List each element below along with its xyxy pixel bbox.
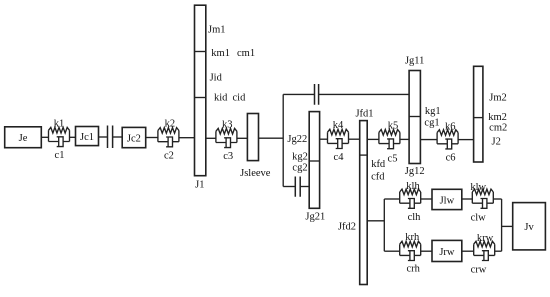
wire (400, 138, 409, 140)
wire (99, 136, 108, 138)
spring k5 (379, 130, 400, 136)
svg-text:Jg12: Jg12 (405, 166, 425, 177)
svg-text:c6: c6 (446, 152, 456, 163)
svg-text:Je: Je (19, 133, 28, 144)
wire (502, 225, 513, 227)
damper c3 (216, 138, 237, 148)
wire (458, 139, 474, 141)
wire (300, 186, 309, 188)
wire (495, 250, 502, 252)
wire (462, 198, 473, 200)
svg-text:c2: c2 (164, 150, 174, 161)
svg-text:crw: crw (471, 265, 487, 276)
right wheel-branch vertical (501, 199, 503, 251)
wire (259, 137, 284, 139)
damper c1 (49, 137, 70, 147)
wire (319, 93, 410, 95)
svg-text:Jg21: Jg21 (305, 212, 325, 223)
svg-text:Jg22: Jg22 (287, 134, 307, 145)
svg-text:c5: c5 (388, 153, 398, 164)
inertia bar Jsleeve (247, 114, 258, 161)
wire (237, 137, 248, 139)
spring-damper end plates k5/c5 (379, 132, 400, 143)
inertia bar Jm2/J2 (474, 66, 483, 162)
svg-text:km1: km1 (211, 48, 230, 59)
spring-damper end plates k2/c2 (158, 131, 179, 142)
svg-text:Jrw: Jrw (439, 247, 455, 258)
svg-text:clh: clh (408, 212, 422, 223)
inertia box Jc1 (76, 127, 99, 146)
spring k4 (328, 129, 349, 135)
wire (283, 93, 314, 95)
wire (384, 198, 399, 200)
svg-text:Jlw: Jlw (440, 195, 455, 206)
branch node vertical (282, 94, 284, 186)
damper clh (400, 199, 421, 209)
wire (283, 186, 295, 188)
svg-text:krh: krh (405, 232, 420, 243)
svg-text:kg1: kg1 (425, 106, 441, 117)
svg-text:c1: c1 (55, 150, 65, 161)
spring krh (400, 241, 421, 247)
gear mesh kg1 cg1 mesh (315, 84, 319, 105)
svg-text:Jfd2: Jfd2 (338, 221, 356, 232)
spring k3 (216, 128, 237, 134)
spring k6 (437, 130, 458, 136)
wire (349, 138, 360, 140)
svg-text:k5: k5 (388, 120, 399, 131)
wire (320, 138, 328, 140)
inertia bar Jg11/Jg12 (409, 71, 420, 164)
inertia box Jc2 (122, 127, 146, 147)
svg-text:c4: c4 (334, 152, 345, 163)
damper c2 (158, 137, 179, 147)
svg-text:crh: crh (406, 264, 420, 275)
svg-text:Jc1: Jc1 (80, 132, 94, 143)
wire (146, 137, 158, 139)
wire (206, 137, 216, 139)
svg-text:cfd: cfd (371, 172, 385, 183)
svg-text:cg2: cg2 (292, 163, 307, 174)
spring k1 (49, 127, 70, 133)
svg-text:k3: k3 (222, 119, 233, 130)
svg-text:k4: k4 (333, 120, 344, 131)
svg-text:k1: k1 (54, 118, 65, 129)
svg-text:Jv: Jv (524, 222, 534, 233)
wire (70, 136, 76, 138)
wire (493, 198, 501, 200)
spring-damper end plates krh/crh (400, 244, 421, 255)
svg-text:krw: krw (477, 233, 494, 244)
inertia bar Jg22/Jg21 (309, 112, 319, 209)
wire (367, 220, 384, 222)
spring-damper end plates krw/crw (474, 244, 495, 255)
svg-text:kfd: kfd (371, 159, 386, 170)
spring krw (474, 241, 495, 247)
inertia box Je (5, 127, 42, 148)
wire (367, 138, 379, 140)
spring-damper end plates klh/clh (400, 192, 421, 203)
svg-text:J2: J2 (492, 136, 501, 147)
inertia box Jlw (432, 189, 462, 209)
spring klw (472, 189, 493, 195)
damper clw (472, 199, 493, 209)
svg-text:cm1: cm1 (237, 48, 255, 59)
wire (384, 250, 399, 252)
damper c5 (379, 139, 400, 149)
spring-damper end plates k3/c3 (216, 131, 237, 142)
svg-text:k2: k2 (165, 119, 176, 130)
inertia box Jv (513, 203, 546, 250)
svg-text:cm2: cm2 (489, 122, 507, 133)
inertia bar Jfd1/Jfd2 (360, 121, 368, 285)
svg-text:k6: k6 (445, 121, 456, 132)
spring klh (400, 189, 421, 195)
wire (113, 136, 123, 138)
wire (41, 136, 48, 138)
damper crh (400, 251, 421, 261)
spring-damper end plates klw/clw (472, 192, 493, 203)
svg-text:kg2: kg2 (292, 152, 308, 163)
damper c4 (328, 139, 349, 149)
svg-text:Jid: Jid (210, 72, 223, 83)
gear mesh kg2 cg2 mesh (295, 177, 300, 197)
spring-damper end plates k6/c6 (437, 133, 458, 144)
wire (179, 137, 195, 139)
spring-damper end plates k1/c1 (49, 130, 70, 141)
svg-text:klw: klw (470, 182, 486, 193)
spring k2 (158, 128, 179, 134)
svg-text:clw: clw (471, 213, 487, 224)
damper c6 (437, 139, 458, 149)
svg-text:Jg11: Jg11 (405, 56, 424, 67)
svg-text:kid: kid (214, 93, 228, 104)
gear mesh clutch plates (108, 126, 113, 149)
wire (462, 250, 474, 252)
svg-text:klh: klh (406, 181, 420, 192)
damper crw (474, 251, 495, 261)
svg-text:cg1: cg1 (424, 118, 439, 129)
svg-text:Jc2: Jc2 (127, 134, 141, 145)
svg-text:cid: cid (233, 93, 247, 104)
wire (420, 139, 437, 141)
svg-text:c3: c3 (223, 151, 233, 162)
left wheel-branch vertical (383, 199, 385, 251)
wire (421, 250, 432, 252)
svg-text:Jm2: Jm2 (489, 93, 507, 104)
svg-text:Jm1: Jm1 (208, 25, 226, 36)
inertia bar J1 (195, 5, 206, 176)
svg-text:J1: J1 (195, 180, 204, 191)
wire (421, 198, 432, 200)
svg-text:Jfd1: Jfd1 (355, 108, 373, 119)
spring-damper end plates k4/c4 (328, 132, 349, 143)
svg-text:Jsleeve: Jsleeve (240, 168, 271, 179)
inertia box Jrw (432, 240, 462, 261)
